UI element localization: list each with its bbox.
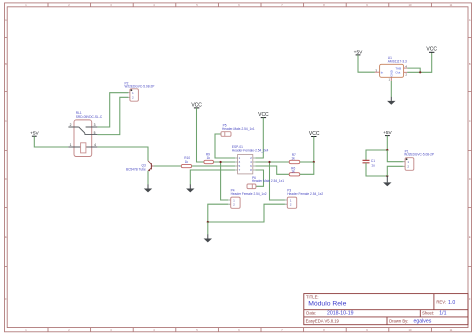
wire ESP-01 pin 1 to P5: [215, 134, 235, 158]
svg-text:1k: 1k: [291, 170, 295, 174]
wire RL1 pin 4 to Q3 collector: [97, 147, 148, 161]
wire junction to P4 pin 1: [221, 162, 229, 200]
wire Q3 emitter to ground: [147, 171, 149, 185]
svg-text:+5V: +5V: [354, 49, 363, 55]
svg-text:SRD-05VDC-SL-C: SRD-05VDC-SL-C: [76, 115, 103, 119]
svg-text:Header-Male-2.54_1x1: Header-Male-2.54_1x1: [222, 127, 255, 131]
svg-text:Date:: Date:: [306, 311, 316, 316]
svg-text:Drawn By:: Drawn By:: [389, 318, 408, 323]
svg-text:Header-Female-2.54_2x4: Header-Female-2.54_2x4: [232, 149, 269, 153]
svg-text:E: E: [469, 235, 471, 239]
svg-text:REV:: REV:: [436, 300, 446, 305]
ESP-01 socket (header female 2x4): [232, 145, 269, 174]
svg-text:3: 3: [94, 123, 96, 127]
header P5: [221, 123, 255, 136]
connector P2: [125, 81, 155, 101]
wire ground junction to P3 pin 2: [208, 204, 285, 222]
svg-text:1u: 1u: [371, 163, 375, 167]
svg-text:7: 7: [239, 168, 241, 172]
svg-text:D: D: [469, 177, 471, 181]
wire ESP-01 pin 2 to VCC: [255, 118, 263, 158]
header P3: [285, 189, 323, 209]
svg-text:A: A: [5, 18, 7, 22]
wire ESP-01 pin 6 to R6: [255, 166, 289, 174]
ground (Q3 emitter): [144, 184, 152, 192]
svg-text:GND: GND: [390, 70, 394, 76]
svg-text:1: 1: [70, 143, 72, 147]
wire ESP-01 pin 4 to R7: [255, 161, 289, 163]
svg-text:1k: 1k: [207, 156, 211, 160]
junction (P4 / P3 ground net): [207, 221, 209, 223]
wire +5V to U1 In: [358, 55, 375, 72]
wire P3 pin 1 to ESP-01 pin 4: [270, 162, 285, 200]
wire P1 pin 1 to +5V junction: [387, 150, 403, 162]
wire RL1 pin 3 to P2 pin 1: [97, 93, 128, 127]
svg-text:AMS1117-3.3: AMS1117-3.3: [388, 60, 407, 64]
wire VCC down to junction: [313, 137, 315, 163]
svg-text:2018-10-19: 2018-10-19: [327, 311, 354, 317]
regulator U1 AMS1117-3.3: [375, 56, 408, 81]
resistor R9: [204, 153, 214, 164]
power VCC (R9 pull-up): [191, 102, 202, 108]
resistor R7: [289, 153, 300, 163]
wire +5V to RL1 pin 1: [34, 136, 68, 147]
svg-text:EasyEDA V5.8.19: EasyEDA V5.8.19: [306, 318, 340, 323]
svg-text:1: 1: [407, 160, 409, 164]
wire U1 TAB to output junction: [407, 68, 420, 72]
svg-text:WJ2EDGVC-5.08-2P: WJ2EDGVC-5.08-2P: [404, 152, 434, 156]
svg-text:E: E: [5, 235, 7, 239]
junction (TAB / Out): [419, 71, 421, 73]
wire C1 to ground junction: [366, 163, 387, 176]
svg-text:1: 1: [132, 91, 134, 95]
svg-text:1k: 1k: [185, 160, 189, 164]
wire R9 to ESP-01 pin 3: [214, 161, 236, 163]
title block: [304, 294, 468, 325]
svg-text:2: 2: [233, 203, 235, 207]
power VCC (R7/R6 pull-ups): [309, 131, 320, 137]
ground (U1): [387, 97, 395, 105]
wire U1 GND to ground: [390, 81, 392, 97]
svg-text:TITLE:: TITLE:: [306, 294, 319, 299]
wire R6 to VCC junction: [300, 162, 314, 174]
svg-text:C: C: [5, 119, 7, 123]
wire P4 pin 2 to ground junction: [208, 204, 228, 222]
power +5V (U1 input): [354, 49, 363, 55]
svg-text:Header Female 2.54_1x2: Header Female 2.54_1x2: [287, 192, 323, 196]
junction (ESP pin 4 / P3 pin 1): [268, 161, 270, 163]
wire R7 to VCC junction: [300, 161, 314, 163]
power +5V (relay coil supply): [30, 131, 39, 137]
ground (P1 input): [383, 176, 391, 186]
svg-text:Sheet:: Sheet:: [422, 311, 434, 316]
junction (R7 / R6 / VCC): [313, 161, 315, 163]
power VCC (U1 output): [426, 47, 437, 53]
resistor R6: [289, 167, 300, 176]
svg-text:Header Female 2.54_1x2: Header Female 2.54_1x2: [231, 192, 267, 196]
svg-text:Header Male 2.54_1x1: Header Male 2.54_1x1: [252, 179, 284, 183]
svg-text:1/1: 1/1: [439, 311, 446, 317]
transistor Q3 BC547B: [126, 161, 154, 172]
header P6: [247, 176, 284, 189]
svg-text:2: 2: [407, 165, 409, 169]
svg-text:C: C: [469, 119, 471, 123]
wire Q3 base to R10: [154, 165, 182, 167]
wire +5V down to junction: [386, 136, 388, 150]
junction (C1 / P1 pin 2 / GND): [386, 175, 388, 177]
wire VCC to R9: [197, 108, 204, 162]
relay RL1 SRD-05VDC-SL-C: [68, 111, 102, 157]
svg-text:1.0: 1.0: [448, 300, 455, 306]
power +5V (P1 input): [383, 130, 392, 136]
wire U1 Out to VCC: [407, 52, 432, 72]
wire R10 to ESP-01 pin 5: [192, 165, 236, 167]
svg-text:5: 5: [94, 131, 96, 135]
wire junction down to ground: [207, 222, 209, 235]
svg-text:Out: Out: [395, 71, 400, 75]
svg-text:WJ2EDGVC-5.08-2P: WJ2EDGVC-5.08-2P: [125, 84, 155, 88]
svg-text:1k: 1k: [291, 156, 295, 160]
connector P1: [403, 149, 434, 170]
junction (+5V / C1 / P1 pin 1): [386, 149, 388, 151]
svg-text:A: A: [469, 18, 471, 22]
svg-text:Módulo Rele: Módulo Rele: [308, 301, 346, 308]
power VCC (ESP-01 pin 2): [258, 112, 269, 118]
wire junction to C1: [366, 150, 387, 160]
svg-text:B: B: [469, 62, 471, 66]
svg-text:2: 2: [70, 123, 72, 127]
capacitor C1: [363, 159, 376, 167]
svg-text:2: 2: [132, 96, 134, 100]
wire ESP-01 pin 8 to P6: [255, 170, 263, 186]
junction (R9 / ESP pin 3 / P4): [220, 161, 222, 163]
wire P1 pin 2 to ground junction: [387, 166, 403, 176]
wire ESP-01 pin 7 to ground: [190, 170, 235, 185]
resistor R10: [181, 156, 191, 168]
wire RL1 pin 5 to P2 pin 2: [97, 97, 128, 134]
svg-text:B: B: [5, 62, 7, 66]
header P4: [228, 188, 267, 208]
svg-text:2: 2: [290, 203, 292, 207]
ground (ESP-01 GND): [186, 184, 194, 192]
svg-text:D: D: [5, 177, 7, 181]
ground (P4/P3): [204, 234, 212, 242]
svg-text:8: 8: [250, 168, 252, 172]
svg-text:4: 4: [94, 143, 96, 147]
svg-text:BC547B Tube: BC547B Tube: [126, 168, 146, 172]
svg-text:egalves: egalves: [414, 318, 432, 324]
svg-text:In: In: [381, 70, 384, 74]
